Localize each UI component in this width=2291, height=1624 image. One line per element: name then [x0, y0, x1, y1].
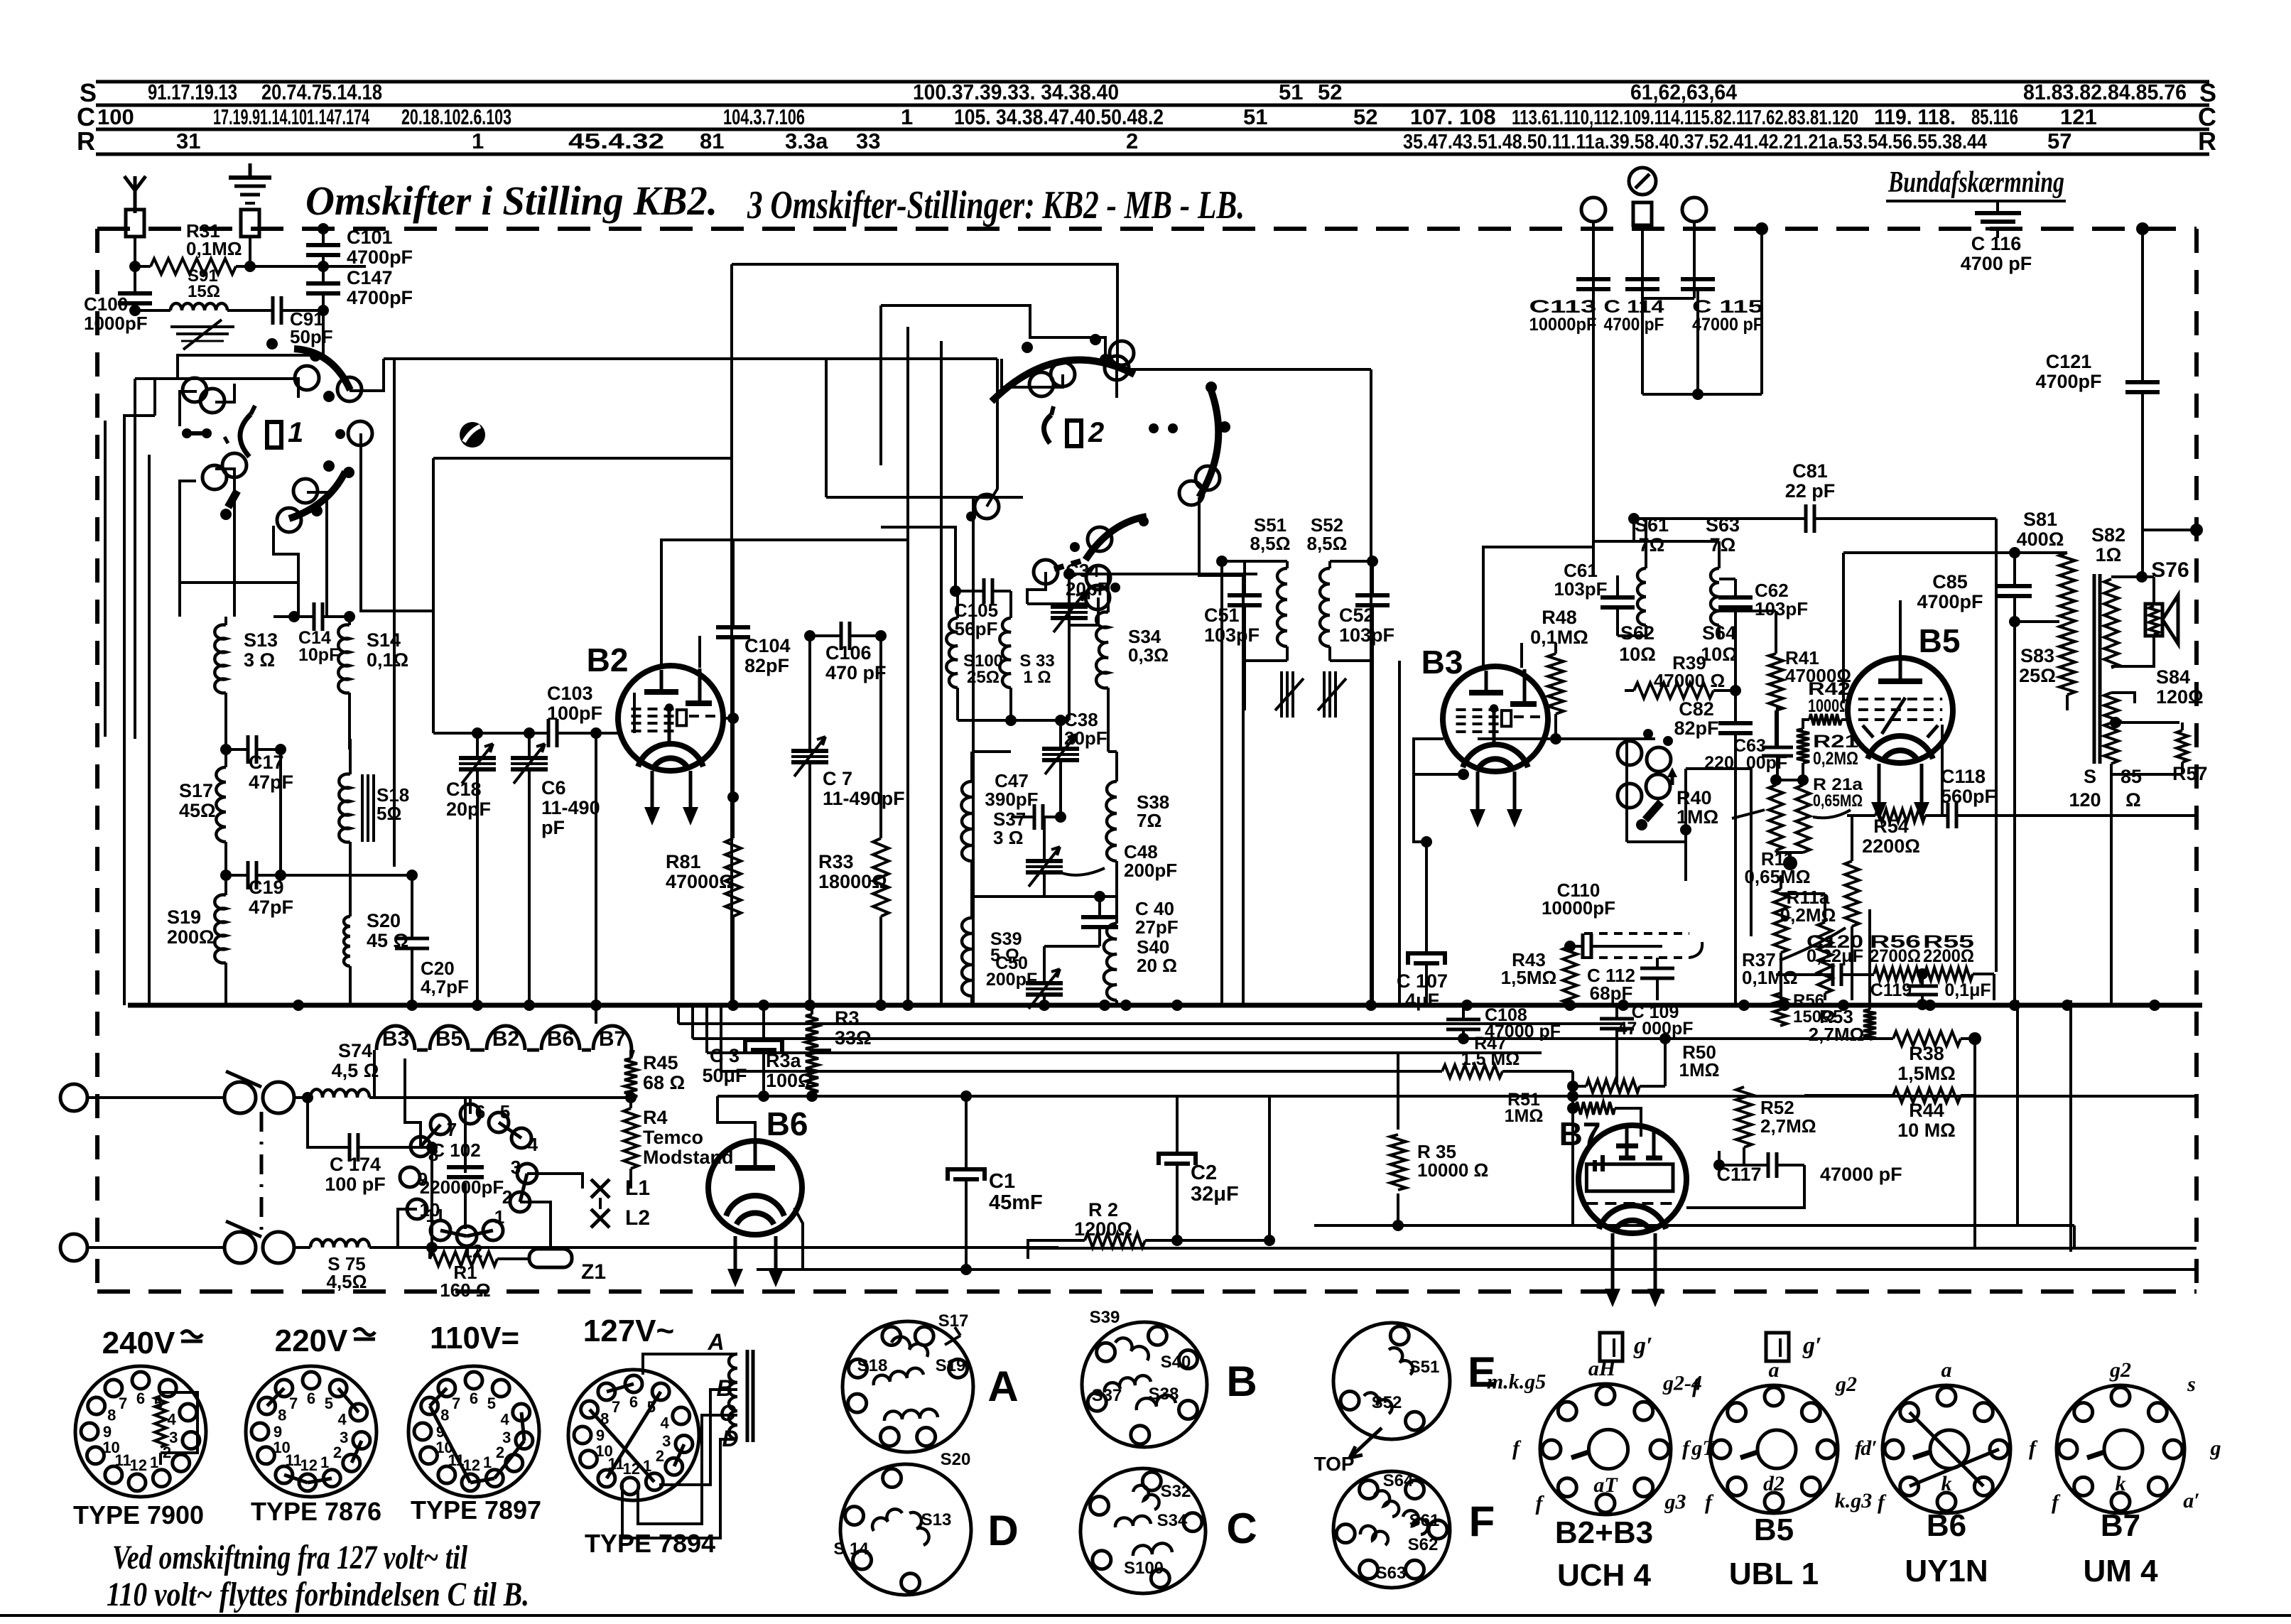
svg-text:8: 8 [278, 1407, 286, 1424]
rotary switch 1 frame [135, 379, 298, 398]
black bead [460, 422, 485, 448]
svg-text:52: 52 [1353, 104, 1377, 129]
svg-text:TYPE 7897: TYPE 7897 [411, 1495, 541, 1525]
svg-text:S52: S52 [1372, 1393, 1402, 1412]
svg-text:C10482pF: C10482pF [744, 635, 791, 676]
svg-text:d2: d2 [1763, 1472, 1784, 1495]
gram terminal 2 [1629, 168, 1656, 195]
svg-text:S51: S51 [1409, 1358, 1440, 1377]
wire: output top [1843, 551, 2067, 554]
svg-text:L1: L1 [625, 1176, 650, 1200]
ground symbol [249, 163, 252, 176]
rotary switch 2 dashed link [1054, 561, 1083, 569]
wire: S6x box [1592, 547, 1595, 575]
svg-text:aH: aH [1588, 1357, 1617, 1380]
heater chain bumps [377, 1026, 415, 1050]
svg-text:C 4027pF: C 4027pF [1135, 898, 1179, 938]
wire: switch1 staircase B [215, 384, 234, 402]
svg-text:Ved omskiftning fra 127 volt~: Ved omskiftning fra 127 volt~ til [112, 1539, 468, 1576]
svg-text:S32: S32 [1161, 1482, 1191, 1501]
wire: heater row riser [630, 1169, 632, 1188]
svg-text:R562700Ω: R562700Ω [1870, 932, 1921, 966]
svg-text:B: B [1226, 1358, 1257, 1405]
B5 cathode arrows [1878, 764, 1881, 816]
wire: gram bus join [1760, 229, 1763, 394]
svg-text:C 11547000 pF: C 11547000 pF [1692, 297, 1763, 335]
wire: C91 box [178, 310, 323, 379]
svg-text:91.17.19.13: 91.17.19.13 [148, 80, 237, 104]
svg-text:S: S [2084, 766, 2096, 787]
wire: switch2 inner rects [879, 305, 882, 465]
svg-text:S 14: S 14 [833, 1539, 869, 1559]
wire: B5 top lead [1899, 600, 1902, 658]
rotary switch 2 left contacts [975, 494, 999, 519]
wire: main HT bus [128, 1003, 2202, 1008]
svg-text:S76: S76 [2151, 558, 2189, 582]
rotary switch 2 frame [732, 264, 1117, 369]
svg-text:S6410Ω: S6410Ω [1701, 622, 1738, 665]
svg-text:1: 1 [901, 104, 913, 129]
svg-text:119. 118.: 119. 118. [1874, 104, 1956, 129]
svg-text:S63: S63 [1376, 1564, 1407, 1583]
svg-text:C11310000pF: C11310000pF [1529, 297, 1597, 335]
mains terminal lower [60, 1234, 87, 1261]
wire: chassis dashed border [97, 227, 2197, 231]
svg-text:5: 5 [325, 1395, 333, 1412]
svg-text:g3: g3 [1664, 1490, 1686, 1513]
svg-text:S37: S37 [1092, 1386, 1122, 1405]
svg-text:20.18.102.6.103: 20.18.102.6.103 [401, 104, 511, 129]
svg-text:B2: B2 [587, 642, 629, 678]
svg-text:a: a [1941, 1358, 1952, 1382]
wire: B2 envelope leads [723, 717, 733, 720]
svg-text:R 21a0,65MΩ: R 21a0,65MΩ [1813, 775, 1863, 811]
svg-text:S64: S64 [1383, 1471, 1414, 1490]
svg-text:S40: S40 [1161, 1353, 1191, 1372]
svg-text:k.g3: k.g3 [1835, 1489, 1873, 1512]
svg-text:TYPE 7876: TYPE 7876 [251, 1497, 381, 1526]
detail circle B [1082, 1322, 1207, 1447]
svg-text:Z1: Z1 [581, 1260, 606, 1284]
detail circle F [1333, 1471, 1450, 1588]
svg-text:240V: 240V [102, 1326, 175, 1360]
svg-text:20.74.75.14.18: 20.74.75.14.18 [261, 80, 382, 104]
svg-text:S18: S18 [857, 1356, 888, 1375]
rotary selector at B3 [1618, 741, 1642, 765]
svg-text:S744,5 Ω: S744,5 Ω [332, 1040, 379, 1081]
wire: top table rule 3 [96, 128, 2209, 131]
svg-text:100.37.39.33. 34.38.40: 100.37.39.33. 34.38.40 [913, 80, 1119, 104]
svg-text:Ω: Ω [2125, 789, 2141, 811]
L1 terminal [591, 1179, 610, 1198]
tube base diagram UM4 [2057, 1385, 2184, 1513]
wire: B5 anode down [1941, 725, 1944, 816]
svg-text:17.19.91.14.101.147.174: 17.19.91.14.101.147.174 [213, 104, 369, 129]
svg-text:B7: B7 [2101, 1508, 2140, 1543]
svg-text:S 754,5Ω: S 754,5Ω [327, 1253, 367, 1292]
wire: top table rule 4 [96, 153, 2209, 156]
rotary switch 1 index arc [240, 414, 251, 457]
detail circle E [1333, 1323, 1450, 1439]
svg-text:S373 Ω: S373 Ω [993, 808, 1026, 848]
svg-text:4: 4 [500, 1410, 509, 1428]
wire: gram link [1642, 297, 1694, 300]
svg-text:7: 7 [612, 1398, 620, 1416]
svg-text:45.4.32: 45.4.32 [568, 129, 664, 153]
B2 cathode arrows [651, 771, 654, 821]
svg-text:d′: d′ [1861, 1436, 1877, 1460]
svg-text:C 11268pF: C 11268pF [1587, 965, 1635, 1004]
svg-text:3: 3 [662, 1432, 671, 1450]
svg-text:110 volt~ flyttes forbindelsen: 110 volt~ flyttes forbindelsen C til B. [107, 1576, 529, 1613]
selector links [421, 1125, 440, 1147]
wire: R40 R21a bottom join [1776, 851, 1803, 854]
rotary switch 1 lever [228, 491, 237, 507]
svg-text:12: 12 [300, 1456, 317, 1474]
svg-text:81: 81 [700, 129, 724, 153]
svg-text:4: 4 [528, 1134, 538, 1155]
wire: grid feed [595, 733, 597, 1024]
svg-text:B2+B3: B2+B3 [1555, 1515, 1653, 1550]
svg-text:S 331 Ω: S 331 Ω [1019, 651, 1054, 687]
wire: B3 grid side [1414, 739, 1463, 774]
svg-text:UCH 4: UCH 4 [1557, 1558, 1652, 1593]
svg-text:g2: g2 [2109, 1358, 2131, 1382]
svg-text:B7: B7 [599, 1027, 626, 1051]
svg-text:1: 1 [483, 1454, 492, 1471]
rotary switch 2 lower arc [1085, 516, 1147, 560]
wire: right verticals [1995, 561, 1998, 972]
wire: middle bank joins [881, 527, 955, 591]
wire: dashed border tap [2143, 530, 2197, 577]
svg-text:5: 5 [500, 1101, 510, 1122]
detail circle C [1080, 1468, 1206, 1593]
svg-text:113.61.110,112.109.114.115.82.: 113.61.110,112.109.114.115.82.117.62.83.… [1512, 107, 1858, 129]
svg-text:B3: B3 [382, 1027, 409, 1051]
wire: B6 bottom loop [794, 1208, 803, 1270]
svg-text:k: k [2116, 1472, 2126, 1495]
svg-text:C8122 pF: C8122 pF [1785, 460, 1836, 502]
svg-text:104.3.7.106: 104.3.7.106 [723, 104, 805, 129]
wire: B2 region verticals [633, 693, 636, 733]
svg-text:UY1N: UY1N [1905, 1554, 1988, 1588]
B6 cathode arrows [734, 1236, 737, 1283]
svg-text:7: 7 [119, 1395, 127, 1412]
switch pole lower [224, 1232, 256, 1263]
svg-text:Bundafskærmning: Bundafskærmning [1887, 166, 2064, 199]
svg-text:D: D [987, 1507, 1018, 1554]
wire: B5 bias chain [1824, 875, 1826, 894]
wire: long low bus [717, 1095, 2197, 1098]
rotary switch 1 lower arc [289, 472, 345, 519]
rotary switch 1 dash contact [182, 428, 192, 438]
svg-text:7: 7 [289, 1395, 298, 1412]
svg-text:C8282pF: C8282pF [1674, 698, 1718, 739]
wire: switch linkage dash-dot [260, 1112, 264, 1233]
svg-text:11: 11 [426, 1205, 445, 1226]
wire: IF to B3 [1371, 661, 1374, 1005]
svg-text:aT: aT [1593, 1473, 1618, 1497]
svg-text:C 102: C 102 [431, 1139, 480, 1161]
svg-text:S10025Ω: S10025Ω [963, 651, 1003, 687]
svg-text:UBL 1: UBL 1 [1729, 1557, 1819, 1591]
svg-text:S13: S13 [921, 1510, 952, 1530]
svg-text:52: 52 [1318, 80, 1342, 104]
wire: top table rule 1 [96, 80, 2209, 84]
rotary switch 2 right arc [1199, 391, 1218, 497]
svg-text:R: R [2198, 126, 2216, 156]
wire: R21 R40 junction [1776, 779, 1803, 781]
svg-text:61,62,63,64: 61,62,63,64 [1630, 80, 1738, 104]
svg-text:TYPE 7894: TYPE 7894 [585, 1529, 715, 1558]
svg-text:S821Ω: S821Ω [2091, 524, 2125, 565]
rotary switch 2 position mark [1067, 421, 1081, 446]
svg-text:6: 6 [475, 1101, 485, 1122]
detail circle A [843, 1321, 973, 1452]
svg-text:C 174100 pF: C 174100 pF [325, 1154, 386, 1195]
gram terminal 1 [1581, 197, 1605, 222]
svg-text:A: A [987, 1363, 1018, 1410]
mains terminal upper [60, 1084, 87, 1111]
wire: page bottom rule [0, 1614, 2291, 1617]
svg-text:35.47.43.51.48.50.11.11a.39.58: 35.47.43.51.48.50.11.11a.39.58.40.37.52.… [1403, 131, 1987, 153]
svg-text:3: 3 [340, 1429, 348, 1446]
svg-text:1: 1 [320, 1454, 329, 1471]
tube base diagram UY1N [1883, 1385, 2010, 1513]
svg-text:B2: B2 [492, 1027, 519, 1051]
wire: right lower horizontals [693, 1037, 1870, 1040]
wire: lower left mesh [180, 581, 298, 584]
svg-text:C1200,22μF: C1200,22μF [1807, 932, 1863, 966]
svg-text:L2: L2 [625, 1206, 650, 1230]
detail circle D [840, 1464, 971, 1595]
svg-text:51: 51 [1243, 104, 1267, 129]
svg-text:6: 6 [470, 1390, 478, 1407]
svg-text:R210,2MΩ: R210,2MΩ [1813, 732, 1858, 769]
rotary switch 2 index [1044, 415, 1051, 443]
svg-text:11: 11 [114, 1451, 131, 1469]
svg-text:C119: C119 [1870, 980, 1912, 1000]
impedance Z1 [529, 1249, 572, 1267]
wire: switch1 staircase A [153, 379, 156, 416]
svg-text:57: 57 [2047, 129, 2071, 153]
svg-text:C 1164700 pF: C 1164700 pF [1961, 233, 2032, 274]
svg-text:85.116: 85.116 [1971, 104, 2018, 129]
L2 terminal [591, 1209, 610, 1228]
svg-text:C: C [719, 1400, 736, 1426]
svg-text:B6: B6 [767, 1105, 808, 1142]
voltage selector contacts [430, 1115, 450, 1135]
wire: top table rule 2 [96, 104, 2209, 107]
svg-text:6: 6 [307, 1390, 315, 1407]
svg-text:127V~: 127V~ [583, 1314, 674, 1348]
svg-text:B5: B5 [435, 1027, 462, 1051]
antenna input [134, 190, 137, 213]
svg-text:UM 4: UM 4 [2083, 1554, 2158, 1588]
svg-text:S61: S61 [1409, 1511, 1440, 1530]
svg-text:3: 3 [502, 1429, 511, 1446]
svg-text:s: s [2187, 1373, 2196, 1396]
svg-text:S617Ω: S617Ω [1635, 514, 1669, 556]
svg-text:S528,5Ω: S528,5Ω [1307, 514, 1348, 554]
svg-text:A: A [707, 1329, 724, 1355]
svg-text:B7: B7 [1559, 1115, 1601, 1152]
wire: C17 C19 right leg [279, 749, 282, 875]
svg-text:S17: S17 [938, 1311, 969, 1331]
svg-text:S62: S62 [1408, 1535, 1439, 1554]
wire: selector wiring [469, 1098, 472, 1114]
svg-text:11: 11 [285, 1451, 301, 1469]
svg-text:R501MΩ: R501MΩ [1679, 1041, 1720, 1081]
svg-text:6: 6 [629, 1393, 638, 1411]
svg-text:S6210Ω: S6210Ω [1619, 622, 1656, 665]
svg-text:S9115Ω: S9115Ω [188, 266, 220, 301]
svg-text:85: 85 [2121, 766, 2142, 787]
svg-text:33: 33 [856, 129, 880, 153]
svg-text:B5: B5 [1919, 622, 1961, 659]
svg-text:g′: g′ [1633, 1333, 1653, 1359]
svg-text:B3: B3 [1421, 644, 1463, 681]
svg-text:S637Ω: S637Ω [1706, 514, 1740, 556]
svg-text:S100: S100 [1124, 1559, 1164, 1578]
svg-text:3.3a: 3.3a [785, 129, 828, 153]
svg-text:S518,5Ω: S518,5Ω [1250, 514, 1291, 554]
svg-text:a′: a′ [2183, 1489, 2199, 1512]
winding S85 tap [2116, 721, 2179, 724]
svg-text:C 1144700 pF: C 1144700 pF [1604, 297, 1664, 335]
svg-text:8: 8 [440, 1407, 449, 1424]
B7 anode arrows [1611, 1233, 1615, 1303]
svg-text:TYPE 7900: TYPE 7900 [73, 1500, 204, 1530]
svg-text:S34: S34 [1157, 1511, 1188, 1530]
rotary switch 1 right contact [335, 429, 345, 439]
rotary switch 2 arc top [992, 360, 1134, 401]
rotary switch 1 arc top [294, 349, 350, 390]
svg-text:2: 2 [1126, 129, 1138, 153]
svg-text:S19: S19 [936, 1356, 966, 1375]
svg-text:g: g [2210, 1436, 2221, 1460]
svg-text:F: F [1469, 1498, 1495, 1545]
svg-text:51: 51 [1279, 80, 1303, 104]
svg-text:120: 120 [2069, 789, 2101, 811]
svg-text:C10556pF: C10556pF [954, 600, 998, 639]
svg-text:8: 8 [107, 1407, 116, 1424]
svg-text:12: 12 [129, 1456, 146, 1474]
svg-text:S39: S39 [1090, 1308, 1120, 1327]
svg-text:220V: 220V [275, 1323, 348, 1358]
svg-text:S1745Ω: S1745Ω [179, 780, 216, 821]
svg-text:3: 3 [169, 1429, 178, 1446]
gram terminal 3 [1682, 197, 1706, 222]
wire: B2 plate to C104 [661, 538, 733, 541]
svg-text:5: 5 [487, 1395, 496, 1412]
svg-text:B5: B5 [1754, 1512, 1794, 1547]
svg-text:110V=: 110V= [430, 1321, 519, 1355]
wire: switch2 staircase [1002, 359, 1063, 387]
svg-text:TOP: TOP [1314, 1453, 1354, 1475]
svg-text:47000 pF: 47000 pF [1820, 1164, 1902, 1185]
svg-text:S20: S20 [941, 1450, 971, 1469]
svg-text:7: 7 [452, 1395, 460, 1412]
rotary switch 1 lower-left contacts [222, 453, 247, 477]
svg-text:107. 108: 107. 108 [1410, 104, 1496, 129]
svg-text:3 Omskifter-Stillinger: KB2 -: 3 Omskifter-Stillinger: KB2 - MB - LB. [747, 183, 1245, 227]
B3 cathode arrows [1476, 772, 1480, 823]
wire: bus second [678, 1022, 1623, 1025]
svg-text:121: 121 [2060, 104, 2097, 129]
svg-text:S81400Ω: S81400Ω [2017, 509, 2064, 550]
svg-text:g2: g2 [1835, 1373, 1857, 1396]
svg-text:R: R [77, 126, 95, 156]
trimmer mark S52 [1323, 671, 1326, 718]
svg-text:1: 1 [494, 1206, 504, 1228]
svg-text:3: 3 [511, 1157, 521, 1178]
svg-text:g′: g′ [1802, 1333, 1822, 1359]
wire: B3 anode riser [1592, 398, 1595, 547]
svg-text:31: 31 [176, 129, 200, 153]
svg-text:C: C [1226, 1505, 1257, 1552]
svg-text:1: 1 [288, 417, 303, 448]
svg-text:R552200Ω: R552200Ω [1923, 932, 1974, 966]
switch pole upper [224, 1082, 256, 1113]
svg-text:105. 34.38.47.40.50.48.2: 105. 34.38.47.40.50.48.2 [954, 104, 1164, 129]
svg-text:S133 Ω: S133 Ω [244, 629, 278, 671]
svg-text:S8325Ω: S8325Ω [2019, 645, 2056, 686]
rotary switch 1 left contacts [183, 378, 207, 402]
svg-text:B6: B6 [1927, 1508, 1966, 1543]
svg-text:0,1μF: 0,1μF [1944, 980, 1991, 1000]
svg-text:7: 7 [447, 1119, 457, 1140]
svg-text:Omskifter i Stilling KB2.: Omskifter i Stilling KB2. [305, 178, 717, 224]
svg-text:4: 4 [660, 1414, 669, 1431]
wire: B3 plate top [1483, 547, 1593, 666]
svg-text:k: k [1941, 1472, 1952, 1495]
svg-text:6: 6 [136, 1390, 145, 1407]
trimmer mark S51 [1280, 671, 1283, 718]
svg-text:100: 100 [97, 104, 134, 129]
svg-text:m.k.g5: m.k.g5 [1487, 1370, 1546, 1394]
wire: selector box [1625, 739, 1628, 842]
rotary switch 1 position mark [267, 422, 281, 448]
svg-text:81.83.82.84.85.76: 81.83.82.84.85.76 [2023, 80, 2187, 104]
wire: switch1 to coils [178, 511, 181, 617]
transformer 127V [729, 1354, 737, 1439]
svg-text:1: 1 [472, 129, 484, 153]
svg-text:B6: B6 [547, 1027, 574, 1051]
wire: B2 plate leads [661, 540, 908, 668]
transformer core [2093, 574, 2096, 764]
svg-text:S38: S38 [1149, 1385, 1179, 1404]
wire: bottom distribution [1314, 1224, 2074, 1227]
svg-text:a: a [1769, 1358, 1780, 1382]
svg-text:1: 1 [150, 1454, 158, 1471]
svg-text:2: 2 [1088, 417, 1104, 448]
svg-text:4: 4 [337, 1410, 347, 1428]
